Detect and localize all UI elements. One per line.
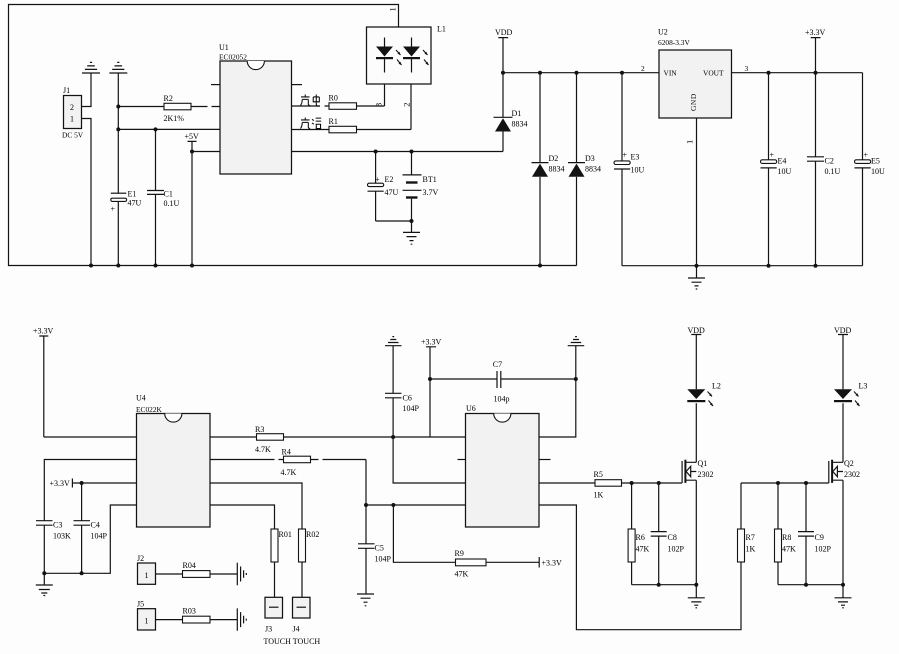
svg-text:VDD: VDD <box>834 326 852 335</box>
svg-text:8834: 8834 <box>549 165 565 174</box>
svg-text:+3.3V: +3.3V <box>542 559 563 568</box>
svg-text:R4: R4 <box>282 448 291 457</box>
transistor Q1 2302 (NMOS) <box>682 459 713 483</box>
wire U4 row4 left to gnd node <box>44 505 136 573</box>
ground GND1 (earth) <box>82 62 100 73</box>
svg-text:C1: C1 <box>164 190 173 199</box>
svg-text:J1: J1 <box>63 86 70 95</box>
svg-text:U4: U4 <box>136 394 146 403</box>
wire U4 row2 left to C3 <box>44 460 136 521</box>
pin 1 label of L1 <box>388 7 398 11</box>
wire Q1 drain up to L2 / source down to ground <box>695 403 697 598</box>
wire +3.3V to U4 pin row1 <box>44 436 137 438</box>
svg-text:R01: R01 <box>279 530 292 539</box>
wire Q2 drain up to L3 / source down to ground <box>842 403 844 598</box>
connector J1 <box>62 86 84 140</box>
svg-text:2: 2 <box>401 103 411 107</box>
wire J1 pin2 to ground <box>82 73 92 107</box>
ground GND2 (earth) <box>109 62 127 73</box>
wire C6 node down to U6 row3 left <box>393 437 465 483</box>
capacitor C8 102P <box>651 483 685 587</box>
svg-text:U2: U2 <box>658 28 668 37</box>
power tap +3.3V (C7 left) <box>421 338 442 438</box>
svg-text:BT1: BT1 <box>423 175 437 184</box>
capacitor E1 47U (electrolytic) <box>111 190 142 214</box>
LED L3 <box>834 382 867 407</box>
wire net C1/U1-pin3 (y=129.4) <box>118 127 220 131</box>
svg-text:D2: D2 <box>549 154 559 163</box>
resistor R2 <box>118 94 220 123</box>
wire border loop net (L1 pin1 to GND rail) <box>9 5 577 266</box>
svg-text:+3.3V: +3.3V <box>50 479 71 488</box>
svg-text:C2: C2 <box>825 157 834 166</box>
svg-text:D3: D3 <box>585 154 595 163</box>
svg-text:EC022K: EC022K <box>136 405 163 414</box>
resistor R9 47K <box>393 505 539 579</box>
svg-text:2: 2 <box>70 103 74 112</box>
touch pad J4 <box>293 597 311 633</box>
wire left pulldown rail <box>632 583 699 587</box>
svg-text:E2: E2 <box>385 175 394 184</box>
svg-text:4.7K: 4.7K <box>281 468 297 477</box>
svg-text:1K: 1K <box>594 491 604 500</box>
IC U4 EC022K (touch controller) <box>136 394 210 528</box>
resistor R4 4.7K <box>210 448 366 478</box>
svg-text:47U: 47U <box>128 199 142 208</box>
svg-text:DC 5V: DC 5V <box>62 131 84 140</box>
voltage regulator U2 6208-3.3V <box>658 28 732 119</box>
svg-text:C7: C7 <box>493 360 502 369</box>
svg-text:2302: 2302 <box>698 470 714 479</box>
svg-text:R5: R5 <box>594 470 603 479</box>
svg-text:R02: R02 <box>306 530 319 539</box>
wire R0 to L1 pin3 <box>384 84 386 106</box>
ground below U2 <box>688 278 705 289</box>
svg-text:3: 3 <box>373 103 383 107</box>
svg-text:R04: R04 <box>183 561 196 570</box>
svg-text:R3: R3 <box>255 425 264 434</box>
svg-text:1: 1 <box>145 571 149 580</box>
svg-text:R1: R1 <box>329 117 338 126</box>
resistor R03 <box>156 607 238 624</box>
svg-text:R7: R7 <box>746 533 755 542</box>
label TOUCH TOUCH <box>264 637 321 646</box>
svg-text:J2: J2 <box>137 554 144 563</box>
pin 2 label of U2 <box>641 64 645 73</box>
wire VIN bus (VDD to U2 pin2) <box>501 71 659 75</box>
resistor R01 (vertical) <box>271 529 292 597</box>
label 充电 (charging) <box>300 95 320 107</box>
svg-text:Q1: Q1 <box>698 459 708 468</box>
capacitor C9 102P <box>798 483 832 587</box>
battery BT1 3.7V <box>403 152 439 233</box>
svg-text:E3: E3 <box>631 153 640 162</box>
svg-text:+5V: +5V <box>185 132 200 141</box>
capacitor C7 104p <box>430 360 578 403</box>
svg-text:J4: J4 <box>293 625 300 634</box>
svg-text:J5: J5 <box>137 600 144 609</box>
svg-text:+: + <box>864 151 869 160</box>
pin 2 label of L1 <box>401 103 411 107</box>
svg-text:U6: U6 <box>466 404 476 413</box>
wire right pulldown rail <box>778 583 845 587</box>
svg-text:TOUCH TOUCH: TOUCH TOUCH <box>264 637 321 646</box>
resistor R0 (charge LED) <box>292 94 385 110</box>
wire U4 row4 right to R01 <box>210 505 275 529</box>
power tap +3.3V (bottom left) <box>33 327 54 438</box>
svg-text:R0: R0 <box>329 94 338 103</box>
svg-text:10U: 10U <box>631 166 645 175</box>
wire GND2 stem through E1 to rail <box>116 73 120 268</box>
svg-text:+: + <box>375 175 380 184</box>
svg-text:L1: L1 <box>437 25 446 34</box>
svg-text:2K1%: 2K1% <box>164 114 185 123</box>
resistor R3 4.7K <box>210 425 466 454</box>
svg-text:0.1U: 0.1U <box>825 167 841 176</box>
svg-text:C8: C8 <box>668 533 677 542</box>
resistor R5 1K <box>539 470 682 500</box>
power tap VDD (L3) <box>834 326 852 389</box>
svg-text:EC02052: EC02052 <box>219 53 247 62</box>
svg-text:GND: GND <box>689 93 698 111</box>
touch pad J3 <box>265 597 283 633</box>
transistor Q2 2302 (NMOS) <box>829 459 860 483</box>
label 充满 (full) <box>300 118 321 129</box>
LED pair L1 <box>367 25 446 85</box>
capacitor E5 10U (electrolytic) <box>855 73 886 266</box>
svg-text:4.7K: 4.7K <box>255 445 271 454</box>
svg-text:D1: D1 <box>512 109 522 118</box>
svg-text:L2: L2 <box>712 382 721 391</box>
ground below BT1 <box>403 232 420 244</box>
capacitor C1 0.1U <box>147 129 180 267</box>
wire Q2 gate line <box>741 481 829 485</box>
svg-text:6208-3.3V: 6208-3.3V <box>658 38 690 47</box>
wire R4 node to U6 row4 left <box>364 460 466 508</box>
diode D2 8834 <box>532 73 565 268</box>
wire R1 to L1 pin2 <box>410 84 412 130</box>
wire U4 row3 right to R02 <box>210 483 302 529</box>
svg-text:U1: U1 <box>219 43 229 52</box>
svg-text:E1: E1 <box>128 190 137 199</box>
resistor R04 <box>156 561 238 577</box>
wire J1 pin1 down to +5V rail <box>82 119 94 268</box>
svg-text:C9: C9 <box>815 533 824 542</box>
connector J2 <box>137 554 156 584</box>
svg-text:47K: 47K <box>455 570 469 579</box>
svg-text:104P: 104P <box>403 404 420 413</box>
ground below C3 <box>36 573 53 595</box>
resistor R7 1K (vertical) <box>738 483 756 562</box>
svg-text:+3.3V: +3.3V <box>33 327 54 336</box>
resistor R8 47K (vertical) <box>775 483 797 585</box>
ground (earth) above C7 right <box>568 337 585 346</box>
connector J5 <box>137 600 156 631</box>
diode D1 8834 <box>494 73 528 152</box>
capacitor E2 47U (electrolytic) <box>368 152 412 222</box>
svg-text:8834: 8834 <box>585 165 601 174</box>
wire U6 right stub <box>539 459 551 461</box>
capacitor E4 10U (electrolytic) <box>761 73 792 266</box>
resistor R6 47K (vertical) <box>628 483 649 585</box>
svg-text:VOUT: VOUT <box>703 69 724 78</box>
ground (rotated earth) at R03 <box>237 608 246 630</box>
capacitor C5 104P <box>358 505 392 594</box>
svg-text:VDD: VDD <box>495 28 513 37</box>
IC U6 <box>466 404 540 527</box>
svg-text:L3: L3 <box>859 382 868 391</box>
power tap +5V <box>185 132 221 268</box>
svg-text:1K: 1K <box>746 545 756 554</box>
svg-text:10U: 10U <box>871 167 885 176</box>
svg-text:C3: C3 <box>53 521 62 530</box>
svg-text:0.1U: 0.1U <box>164 199 180 208</box>
ground (rotated earth) at R04 <box>237 563 246 585</box>
power tap +3.3V (U4 row3) <box>50 479 137 489</box>
svg-text:8834: 8834 <box>512 120 528 129</box>
svg-text:1: 1 <box>685 140 695 144</box>
svg-text:+3.3V: +3.3V <box>805 28 826 37</box>
capacitor C4 104P <box>74 483 108 575</box>
svg-text:C5: C5 <box>375 544 384 553</box>
ground below C5 <box>357 594 374 606</box>
LED L2 <box>687 382 721 407</box>
capacitor C2 0.1U <box>807 73 841 266</box>
svg-text:47K: 47K <box>636 545 650 554</box>
svg-text:+: + <box>111 205 116 214</box>
svg-text:E5: E5 <box>871 157 880 166</box>
IC U1 EC02052 (charger) <box>219 43 292 174</box>
wire U1 pin4 right (+BAT net) <box>292 150 504 154</box>
svg-text:10U: 10U <box>778 167 792 176</box>
wire U2 GND pin 1 <box>685 118 699 278</box>
svg-text:102P: 102P <box>815 545 832 554</box>
svg-text:1: 1 <box>145 617 149 626</box>
svg-text:VIN: VIN <box>664 69 678 78</box>
svg-text:3.7V: 3.7V <box>423 188 439 197</box>
wire right GND rail <box>622 264 863 268</box>
svg-text:2302: 2302 <box>844 470 860 479</box>
svg-text:Q2: Q2 <box>844 459 854 468</box>
wire U2 VOUT line (pin 3) <box>732 64 863 75</box>
resistor R1 (full LED) <box>292 117 412 133</box>
wire ground stem to U6 row1 right <box>539 346 576 437</box>
svg-text:R8: R8 <box>782 533 791 542</box>
svg-text:47K: 47K <box>782 545 796 554</box>
svg-text:E4: E4 <box>778 157 787 166</box>
svg-text:VDD: VDD <box>688 326 706 335</box>
svg-text:R2: R2 <box>164 94 173 103</box>
wire U6 left stub <box>458 459 466 461</box>
resistor R02 (vertical) <box>299 529 320 597</box>
wire U1 left stub pin <box>211 84 220 86</box>
capacitor E3 10U (electrolytic) <box>614 73 645 266</box>
diode D3 8834 <box>568 73 601 266</box>
svg-text:+3.3V: +3.3V <box>421 338 442 347</box>
svg-text:2: 2 <box>641 64 645 73</box>
svg-text:1: 1 <box>388 7 398 11</box>
svg-text:104P: 104P <box>375 555 392 564</box>
power tap +3.3V (R9 right) <box>539 557 562 568</box>
wire U6 row4 right to R7 bottom <box>539 505 741 630</box>
svg-text:47U: 47U <box>385 188 399 197</box>
svg-text:+: + <box>770 151 775 160</box>
svg-text:+: + <box>623 151 628 160</box>
ground (earth) above C6 <box>385 337 402 346</box>
wire U1 right stub pin <box>292 84 303 86</box>
svg-text:J3: J3 <box>265 625 272 634</box>
capacitor C6 104P <box>385 346 420 439</box>
ground below Q1 <box>688 598 705 608</box>
power tap VDD (L2) <box>688 326 706 389</box>
svg-text:104p: 104p <box>494 394 510 403</box>
svg-text:R9: R9 <box>455 549 464 558</box>
svg-text:R03: R03 <box>183 607 196 616</box>
svg-text:R6: R6 <box>636 533 645 542</box>
svg-text:103K: 103K <box>53 532 71 541</box>
capacitor C3 103K <box>36 521 71 576</box>
svg-text:102P: 102P <box>668 545 685 554</box>
power tap +3.3V (top right) <box>805 28 826 73</box>
svg-text:1: 1 <box>70 115 74 124</box>
svg-text:C6: C6 <box>403 394 412 403</box>
pin 3 label of L1 <box>373 103 383 107</box>
svg-text:3: 3 <box>745 64 749 73</box>
ground below Q2 <box>835 598 852 608</box>
power tap VDD (top) <box>495 28 513 73</box>
svg-text:104P: 104P <box>91 532 108 541</box>
svg-text:C4: C4 <box>91 521 100 530</box>
